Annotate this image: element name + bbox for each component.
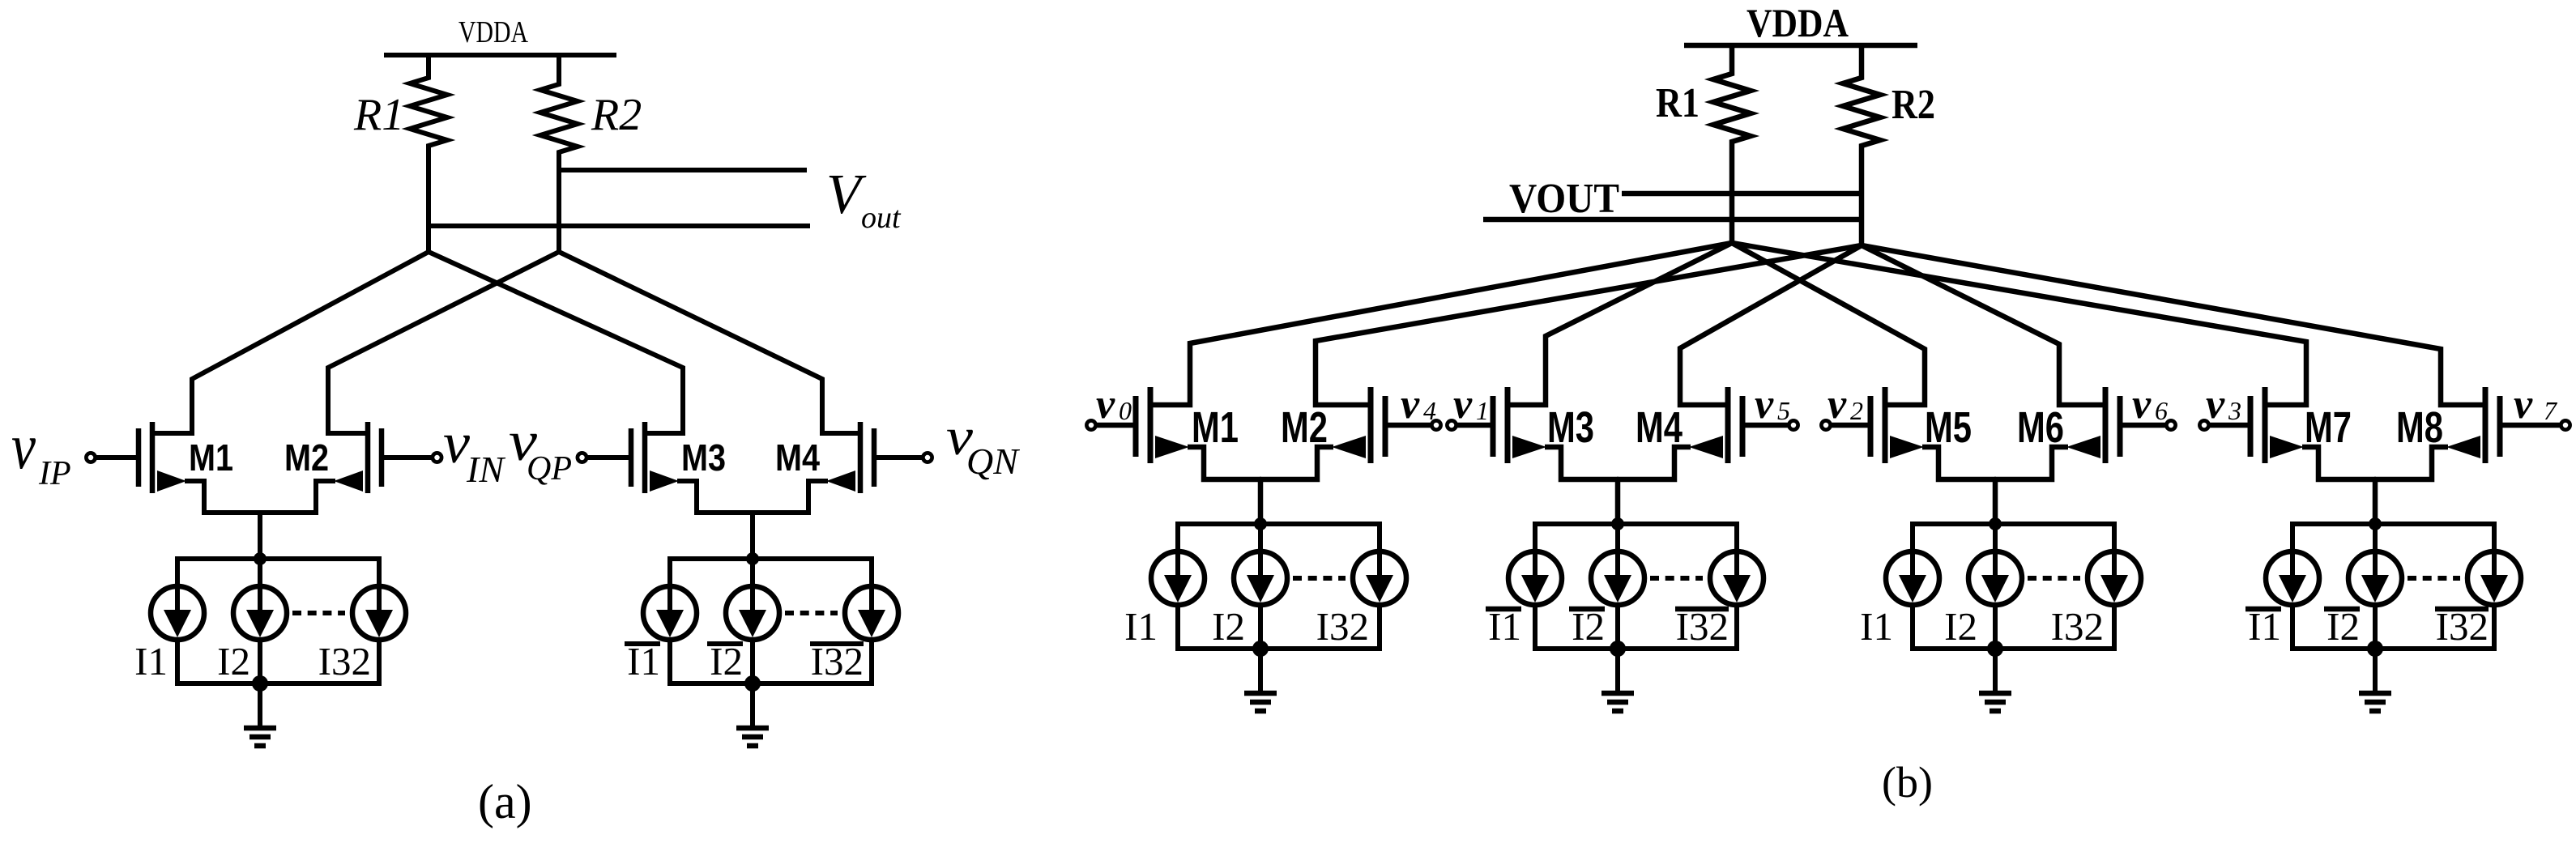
svg-text:M2: M2 — [1281, 403, 1328, 452]
svg-text:6: 6 — [2155, 396, 2168, 425]
svg-text:I32: I32 — [2051, 604, 2104, 649]
svg-text:M1: M1 — [1192, 403, 1239, 452]
svg-text:7: 7 — [2544, 396, 2558, 425]
svg-text:v: v — [1401, 381, 1420, 428]
svg-text:I2: I2 — [1212, 604, 1245, 649]
svg-text:I32: I32 — [318, 639, 371, 683]
svg-text:IN: IN — [466, 449, 505, 490]
svg-text:R1: R1 — [353, 90, 404, 140]
svg-text:v: v — [1096, 381, 1115, 428]
svg-text:I1: I1 — [1124, 604, 1158, 649]
svg-text:IP: IP — [38, 455, 71, 492]
svg-text:QP: QP — [527, 450, 572, 487]
svg-text:v: v — [1828, 381, 1847, 428]
svg-text:M4: M4 — [775, 436, 820, 479]
svg-text:0: 0 — [1119, 396, 1132, 425]
svg-text:M1: M1 — [189, 436, 233, 479]
svg-text:v: v — [1453, 381, 1473, 428]
svg-text:M3: M3 — [681, 436, 726, 479]
svg-text:5: 5 — [1777, 396, 1790, 425]
svg-text:3: 3 — [2228, 396, 2241, 425]
svg-text:I1: I1 — [1860, 604, 1893, 649]
svg-text:(a): (a) — [478, 775, 532, 828]
svg-text:M6: M6 — [2017, 403, 2064, 452]
svg-text:I32: I32 — [1316, 604, 1369, 649]
svg-text:M2: M2 — [284, 436, 329, 479]
svg-text:v: v — [1755, 381, 1774, 428]
svg-text:(b): (b) — [1882, 758, 1933, 807]
svg-text:v: v — [2514, 381, 2533, 428]
svg-text:R2: R2 — [1891, 82, 1935, 128]
svg-text:VOUT: VOUT — [1509, 176, 1619, 222]
svg-text:M7: M7 — [2305, 403, 2352, 452]
svg-text:QN: QN — [966, 441, 1020, 482]
svg-text:M8: M8 — [2396, 403, 2443, 452]
svg-text:4: 4 — [1423, 396, 1436, 425]
svg-text:M5: M5 — [1925, 403, 1972, 452]
svg-text:out: out — [861, 201, 902, 235]
svg-text:1: 1 — [1476, 396, 1489, 425]
svg-text:R2: R2 — [591, 90, 642, 140]
svg-text:v: v — [2132, 381, 2152, 428]
svg-text:I1: I1 — [134, 639, 168, 683]
svg-text:R1: R1 — [1656, 80, 1700, 126]
svg-text:I2: I2 — [217, 639, 250, 683]
svg-text:v: v — [2206, 381, 2225, 428]
svg-text:VDDA: VDDA — [458, 15, 528, 49]
svg-text:I2: I2 — [1944, 604, 1977, 649]
svg-text:M3: M3 — [1547, 403, 1594, 452]
svg-text:v: v — [11, 411, 36, 483]
svg-text:2: 2 — [1850, 396, 1863, 425]
svg-text:M4: M4 — [1636, 403, 1683, 452]
svg-text:VDDA: VDDA — [1746, 0, 1849, 45]
